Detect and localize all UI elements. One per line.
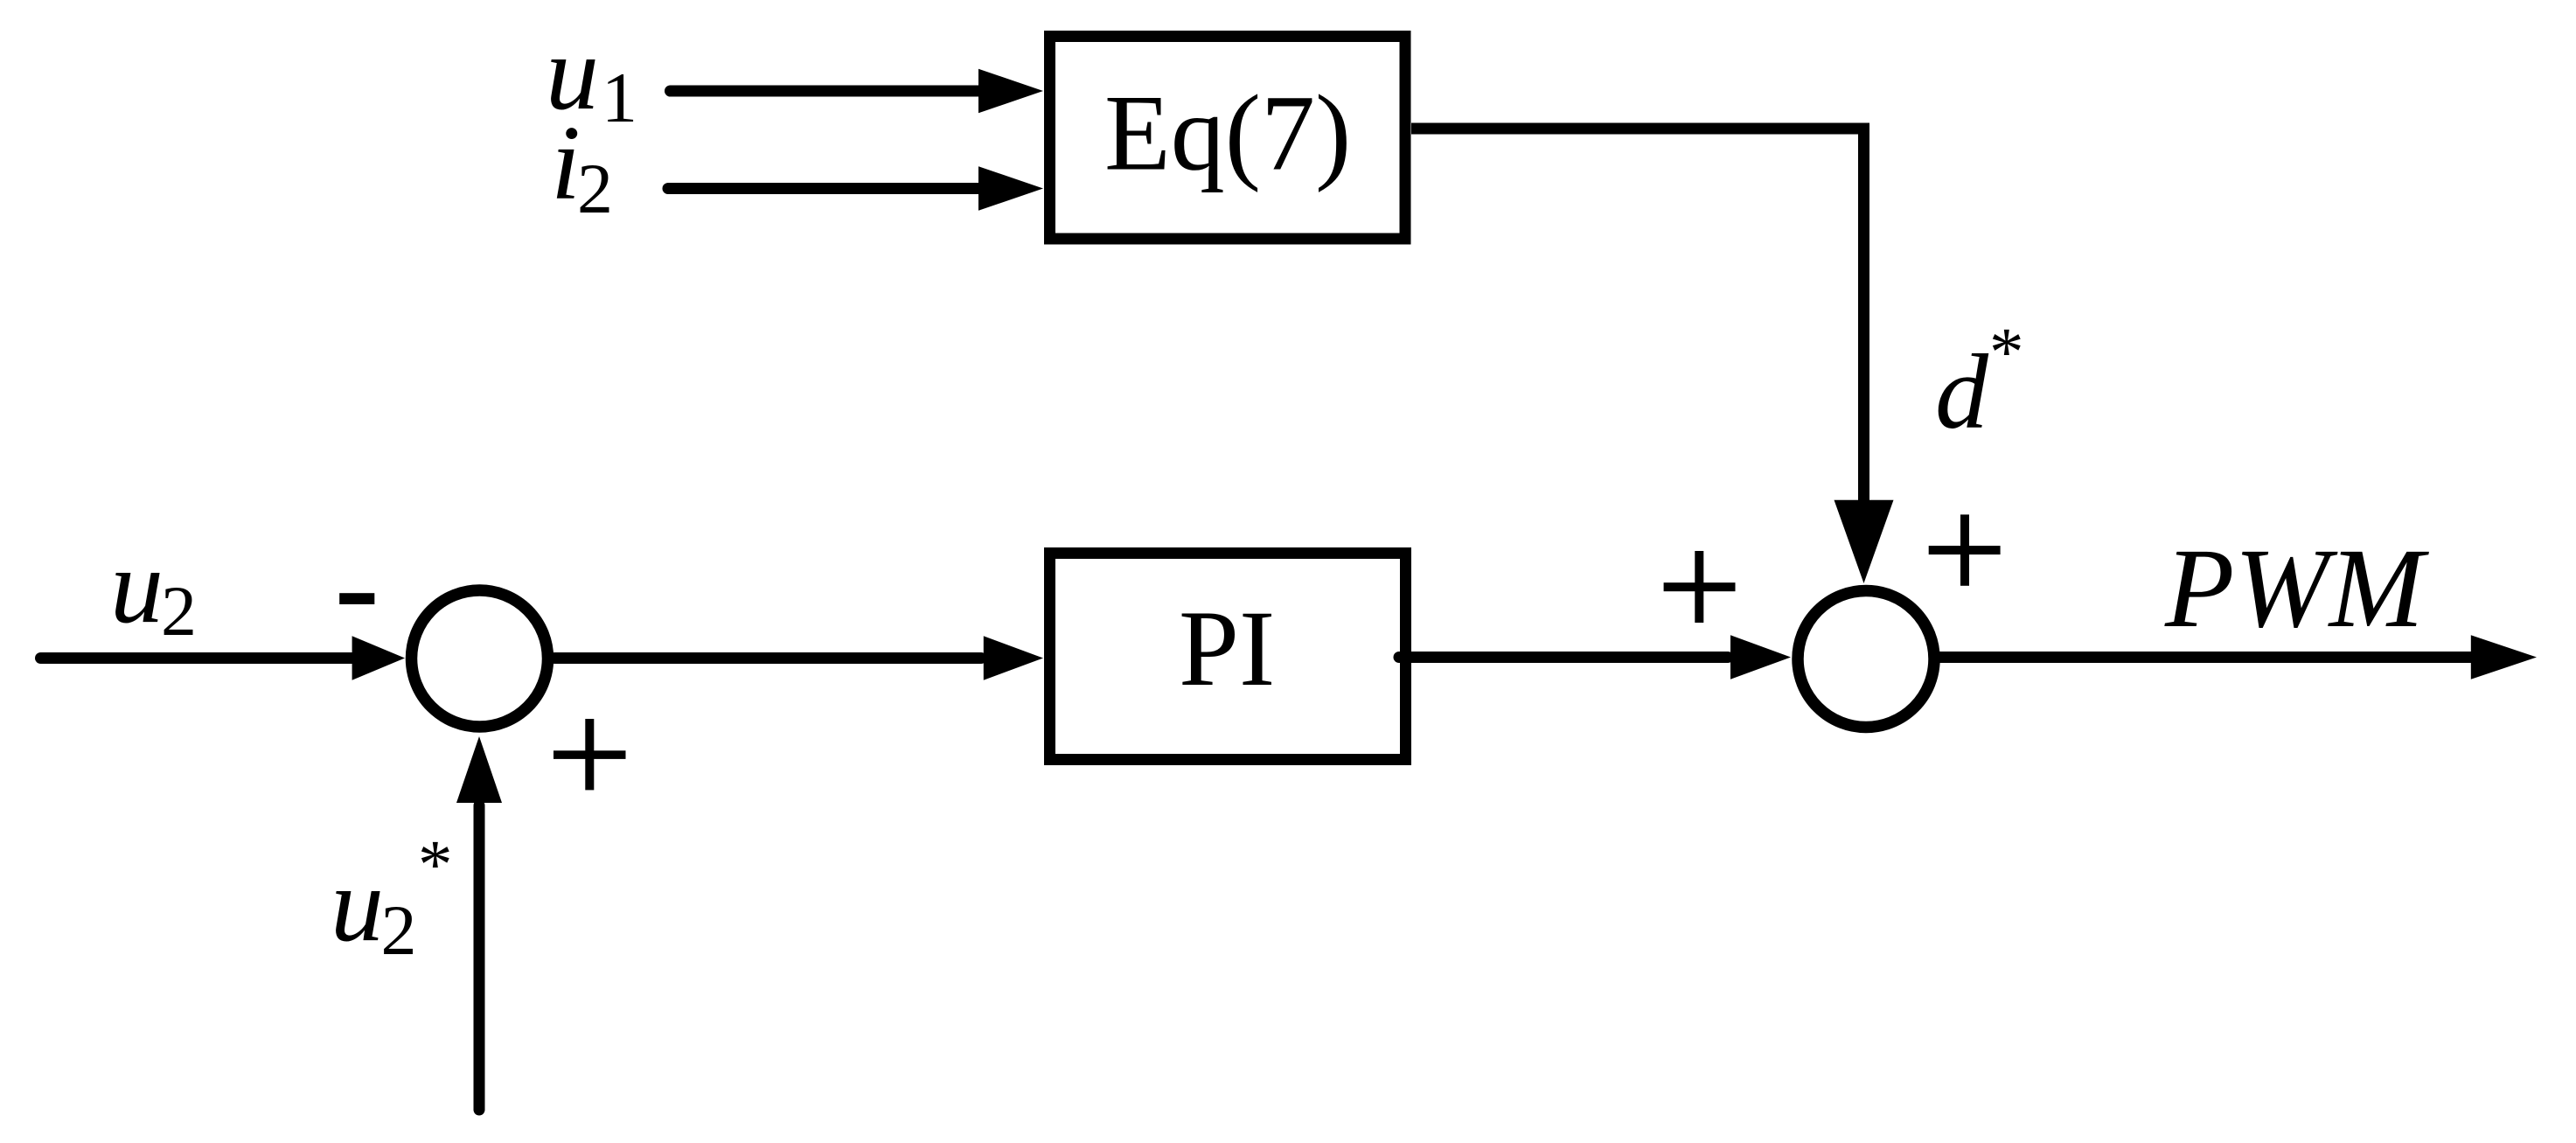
svg-text:u: u — [331, 846, 384, 964]
arrowhead u2* into S1 — [456, 736, 502, 803]
wire PI to S2 — [1399, 652, 1728, 663]
arrowhead d* into summing junction S2 — [1835, 500, 1894, 583]
block Eq(7) — [1050, 37, 1406, 240]
svg-text:2: 2 — [577, 149, 613, 228]
wire S2 to PWM output — [1939, 652, 2473, 663]
svg-text:*: * — [418, 827, 453, 903]
arrowhead PWM output — [2471, 635, 2537, 680]
svg-text:d: d — [1935, 333, 1989, 451]
wire Eq(7) output to corner and down (d* feed) — [1411, 129, 1864, 504]
wire u2 input — [41, 652, 354, 664]
arrowhead into PI — [984, 636, 1043, 680]
wire u2* reference vertical — [474, 805, 485, 1110]
svg-text:Eq(7): Eq(7) — [1104, 73, 1351, 193]
plus sign left of S2 — [1664, 582, 1736, 591]
svg-text:2: 2 — [161, 571, 197, 651]
svg-text:2: 2 — [381, 890, 417, 970]
svg-text:*: * — [1989, 315, 2024, 391]
svg-text:i: i — [551, 104, 581, 222]
wire i2 input — [668, 183, 980, 194]
minus sign at S1 — [339, 593, 374, 604]
plus sign below S1 — [553, 750, 626, 759]
arrowhead u2 into summing junction S1 — [352, 636, 405, 680]
plus sign top-right of S2 — [1929, 546, 2001, 554]
summing junction S1 — [412, 590, 548, 727]
svg-text:1: 1 — [602, 58, 637, 137]
arrowhead into S2 — [1730, 635, 1791, 679]
svg-text:u: u — [110, 527, 164, 645]
block PI — [1050, 554, 1406, 760]
wire u1 input — [671, 86, 981, 97]
svg-text:PWM: PWM — [2164, 526, 2430, 652]
svg-text:PI: PI — [1179, 589, 1275, 708]
arrowhead i2 into Eq(7) — [978, 166, 1043, 211]
arrowhead u1 into Eq(7) — [978, 69, 1043, 114]
wire S1 to PI — [554, 652, 981, 664]
summing junction S2 — [1798, 591, 1934, 728]
